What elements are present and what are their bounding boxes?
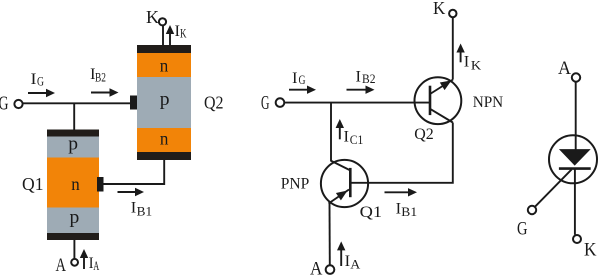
svg-text:G: G — [299, 73, 306, 87]
current arrow I_B2 (four-layer model) — [90, 66, 119, 97]
thyristor triangle — [559, 149, 591, 166]
wire gate junction down to Q1 top — [73, 103, 75, 130]
terminal G (four-layer model) — [0, 93, 23, 115]
svg-text:I: I — [131, 200, 137, 217]
svg-text:I: I — [344, 129, 350, 146]
thyristor cathode bar — [559, 167, 591, 170]
current arrow I_B1 (four-layer model) — [118, 188, 153, 219]
svg-text:K: K — [584, 239, 597, 260]
svg-text:p: p — [160, 89, 170, 110]
current arrow I_B2 (transistor circuit) — [347, 69, 376, 94]
svg-text:K: K — [146, 7, 159, 27]
svg-text:Q1: Q1 — [360, 204, 383, 221]
current arrow I_G (transistor circuit) — [289, 70, 316, 94]
svg-text:Q2: Q2 — [204, 93, 224, 113]
current arrow I_K (four-layer model) — [166, 23, 187, 47]
svg-text:A: A — [350, 258, 360, 272]
terminal G (thyristor symbol) — [517, 206, 536, 240]
wire anode lead — [575, 82, 577, 150]
svg-text:I: I — [31, 71, 37, 88]
transistor Q2 (NPN) — [415, 77, 462, 124]
svg-text:A: A — [310, 259, 323, 276]
wire Q1 base region to Q2 bottom — [103, 160, 164, 185]
current arrow I_K (transistor circuit) — [456, 44, 481, 73]
current arrow I_A (transistor circuit) — [337, 241, 360, 271]
svg-text:n: n — [160, 56, 169, 76]
svg-text:G: G — [37, 75, 44, 89]
wire junction down to Q1 collector — [330, 103, 332, 161]
svg-text:K: K — [433, 0, 445, 18]
svg-text:G: G — [261, 92, 270, 114]
svg-text:Q1: Q1 — [22, 174, 44, 194]
transistor Q1 (PNP) — [321, 160, 368, 207]
wire Q2 collector down and left to Q1 base — [350, 123, 453, 183]
svg-text:K: K — [180, 27, 187, 41]
wire Q1 emitter down to A — [329, 203, 331, 265]
terminal A (four-layer model) — [56, 255, 79, 276]
svg-text:B1: B1 — [137, 205, 153, 219]
svg-text:A: A — [93, 259, 99, 273]
svg-text:I: I — [356, 69, 362, 86]
svg-text:p: p — [68, 134, 78, 155]
wire G to Q2 base — [285, 102, 431, 104]
svg-text:G: G — [0, 93, 9, 115]
four-layer block Q2 (n-p-n) — [130, 45, 191, 160]
svg-text:n: n — [71, 174, 80, 194]
svg-text:A: A — [558, 58, 571, 79]
current arrow I_C1 (transistor circuit) — [336, 119, 364, 147]
svg-text:K: K — [471, 58, 481, 72]
current arrow I_B1 (transistor circuit) — [385, 188, 418, 219]
svg-text:B2: B2 — [95, 71, 106, 85]
terminal A (thyristor symbol) — [558, 58, 580, 82]
terminal A (transistor circuit) — [310, 259, 334, 276]
svg-text:PNP: PNP — [281, 176, 310, 193]
terminal G (transistor circuit) — [261, 92, 284, 114]
current arrow I_G (four-layer model) — [28, 71, 55, 97]
wire K lead (four-layer model) — [162, 26, 164, 46]
wire Q2 emitter up to K — [452, 17, 454, 79]
svg-text:I: I — [292, 70, 298, 87]
four-layer block Q1 (p-n-p) — [47, 130, 104, 241]
thyristor body circle — [549, 135, 597, 183]
svg-text:Q2: Q2 — [414, 126, 434, 143]
wire G lead (four-layer model) — [23, 102, 130, 104]
svg-text:C1: C1 — [350, 133, 364, 147]
wire cathode lead — [574, 170, 576, 235]
terminal K (transistor circuit) — [433, 0, 456, 18]
wire gate lead — [535, 169, 572, 206]
wire A lead (four-layer model) — [73, 239, 75, 259]
terminal K (thyristor symbol) — [573, 235, 597, 260]
svg-text:B1: B1 — [401, 205, 417, 219]
svg-text:p: p — [70, 207, 80, 228]
svg-text:NPN: NPN — [473, 94, 504, 111]
svg-text:n: n — [160, 129, 169, 149]
terminal K (four-layer model) — [146, 7, 166, 27]
svg-text:B2: B2 — [362, 72, 376, 86]
current arrow I_A (four-layer model) — [80, 249, 99, 273]
svg-text:G: G — [517, 218, 528, 239]
svg-text:A: A — [56, 255, 67, 276]
svg-text:I: I — [464, 54, 470, 71]
